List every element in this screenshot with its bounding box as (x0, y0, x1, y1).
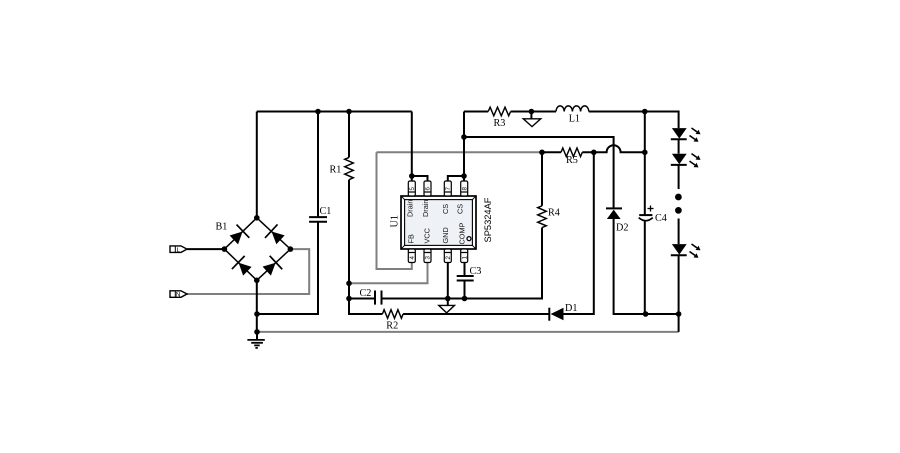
LED 1 (671, 128, 701, 142)
bridge rectifier B1 diamond (224, 218, 290, 280)
wire L input to bridge (187, 248, 224, 250)
U1 pin 5 (408, 181, 416, 196)
terminal N (170, 291, 187, 299)
wire C1 top (317, 112, 319, 218)
wire CS drop to pin 8 (463, 112, 465, 182)
wire R3 to L1 (511, 111, 556, 113)
svg-text:COMP: COMP (458, 222, 467, 244)
svg-text:SP5324AF: SP5324AF (483, 197, 493, 242)
diode D1 (549, 308, 563, 321)
svg-text:D2: D2 (616, 223, 628, 234)
wire LED col to ground rail (678, 314, 680, 332)
svg-text:5: 5 (409, 187, 416, 191)
wire link to pin 7 (448, 176, 464, 181)
svg-text:C3: C3 (470, 266, 482, 277)
LED string ellipsis dots (675, 194, 682, 201)
node pin5 (409, 173, 415, 179)
svg-text:R3: R3 (494, 118, 506, 129)
svg-text:1: 1 (461, 256, 468, 260)
node bridge top (254, 215, 260, 221)
wire LED3 to bottom (678, 255, 680, 314)
bridge diode upper-left (227, 225, 249, 247)
resistor R4 (538, 206, 547, 228)
node C2 R1 (346, 296, 352, 302)
svg-text:C4: C4 (655, 213, 667, 224)
svg-text:FB: FB (407, 234, 416, 243)
svg-text:R2: R2 (386, 321, 398, 332)
svg-text:R1: R1 (330, 165, 342, 176)
wire bridge bottom drop (256, 280, 258, 332)
wire R1 top (348, 112, 350, 158)
node R4 top tee (539, 150, 545, 156)
wire D2 bottom rail (614, 219, 679, 314)
node R3 ground (529, 109, 535, 115)
svg-text:2: 2 (445, 256, 452, 260)
svg-text:8: 8 (461, 187, 468, 191)
resistor R1 (345, 157, 354, 179)
svg-text:L: L (177, 247, 181, 254)
resistor R5 (561, 148, 582, 157)
svg-text:4: 4 (409, 256, 416, 260)
wire VCC pin3 to R1 bottom (gray) (349, 263, 428, 284)
capacitor C3 (457, 276, 474, 281)
wire R5 to C4 col with hop over D2 (582, 145, 645, 152)
wire CS line to D2 top (464, 137, 614, 208)
node LED bottom (676, 311, 682, 317)
wire C4 bottom (644, 222, 646, 315)
capacitor C2 (375, 291, 382, 305)
U1 pin 7 (444, 181, 452, 196)
U1 pin 3 (424, 249, 432, 263)
svg-text:7: 7 (445, 187, 452, 191)
capacitor C1 (309, 217, 327, 222)
wire GND pin 2 drop (447, 263, 449, 306)
capacitor C4 polarized (639, 206, 654, 221)
node C4 bottom (643, 311, 649, 317)
U1 pin 6 (424, 181, 432, 196)
svg-text:VCC: VCC (422, 228, 431, 243)
node C4 R5 tee (642, 150, 648, 156)
wire C2 left link (349, 298, 375, 300)
svg-text:6: 6 (425, 187, 432, 191)
svg-text:3: 3 (425, 256, 432, 260)
node GND line (445, 296, 451, 302)
node earth rail (254, 329, 260, 335)
node CS tee (461, 134, 467, 140)
wire FB pin4 loop around U1 (gray) (377, 152, 412, 269)
svg-text:N: N (176, 292, 181, 299)
wire D1 to riser (561, 152, 594, 314)
LED 2 (671, 154, 701, 168)
ground after R3 (523, 119, 540, 127)
inductor L1 (556, 106, 589, 112)
diode D2 (606, 208, 622, 219)
svg-text:CS: CS (455, 204, 464, 214)
U1 pin 8 (461, 181, 469, 196)
U1 pin 2 (444, 249, 452, 263)
svg-text:C2: C2 (360, 288, 372, 299)
resistor R3 (488, 107, 510, 116)
bridge diode upper-right (265, 224, 287, 246)
wire R1 bottom down to R2 line (349, 180, 382, 314)
U1 pin1 indicator circle (467, 237, 471, 241)
wire R4 bottom to C2 right (382, 228, 543, 299)
svg-text:D1: D1 (565, 303, 577, 314)
node C1 ground (254, 311, 260, 317)
svg-text:R5: R5 (566, 155, 578, 166)
node bridge bottom (254, 278, 260, 284)
wire C3 bottom (464, 281, 466, 299)
node C3 bottom (462, 296, 468, 302)
U1 pin 4 (408, 249, 416, 263)
svg-text:C1: C1 (320, 206, 332, 217)
wire earth stub (256, 332, 258, 340)
node VCC R1 (346, 281, 352, 287)
wire R2 to D1 (403, 313, 548, 315)
wire R4 tee to R5 (542, 151, 561, 153)
wire N input (gray) (187, 249, 309, 294)
node C4 top (642, 109, 648, 115)
wire R4 top (541, 152, 543, 206)
wire top rail right start (464, 111, 488, 113)
wire bottom ground rail (gray) (257, 331, 679, 333)
wire link to pin 6 (412, 176, 428, 181)
node pin8 (461, 173, 467, 179)
node C1 top (315, 109, 321, 115)
svg-text:R4: R4 (548, 208, 560, 219)
terminal L (170, 246, 187, 254)
ground under pin2 (439, 305, 455, 313)
svg-text:CS: CS (441, 204, 450, 214)
node R1 top (346, 109, 352, 115)
bridge diode lower-right (260, 256, 282, 278)
svg-text:Drain: Drain (406, 200, 415, 217)
resistor R2 (382, 310, 403, 319)
wire FB net to R4 top (gray) (377, 151, 543, 153)
svg-text:L1: L1 (569, 113, 580, 124)
wire to LED3 (678, 219, 680, 245)
svg-text:Drain: Drain (421, 200, 430, 217)
wire COMP pin1 to C3 (464, 263, 466, 277)
U1 pin 1 (461, 249, 469, 263)
svg-text:B1: B1 (216, 222, 228, 233)
wire drain drop to pin 5 (411, 112, 413, 182)
op-amp U1 body (401, 196, 476, 249)
wire LED2 down (678, 165, 680, 189)
node bridge left (222, 246, 228, 252)
bridge diode lower-left (232, 256, 254, 278)
wire R3 ground stub (530, 112, 532, 119)
wire L1 to LED column (589, 112, 679, 129)
earth ground (247, 340, 264, 348)
LED 3 (671, 244, 701, 258)
svg-text:GND: GND (441, 227, 450, 243)
wire C1 bottom to ground node (257, 222, 318, 314)
svg-text:U1: U1 (390, 215, 401, 227)
wire C4 top column (644, 112, 646, 216)
node D1 riser tee (591, 150, 597, 156)
wire bridge top riser (256, 112, 258, 218)
wire LED1-LED2 (678, 139, 680, 154)
node bridge right (288, 246, 294, 252)
wire top rail left (257, 111, 412, 113)
